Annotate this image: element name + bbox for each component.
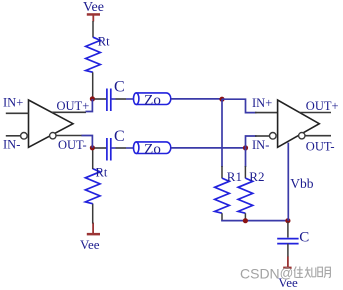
svg-text:C: C — [114, 128, 125, 145]
node D junction dot — [243, 145, 248, 150]
svg-text:R2: R2 — [249, 169, 264, 184]
resistor R1 — [215, 178, 230, 213]
wire node D down to R2 — [245, 148, 247, 167]
wire Zo2 to node D — [171, 147, 246, 149]
svg-text:Zo: Zo — [144, 92, 161, 108]
svg-text:IN-: IN- — [252, 138, 269, 152]
pin IN+ (left amp) — [6, 112, 29, 114]
svg-text:OUT+: OUT+ — [306, 99, 339, 113]
resistor Rt (top) — [86, 37, 101, 72]
wire bottom rail R1/R2 to Vbb node — [222, 219, 288, 222]
wire Vbb node to C3 — [287, 222, 289, 238]
pin R2 top — [244, 166, 246, 178]
pin OUT+ (left amp) — [52, 111, 86, 113]
op-amp U1 (left) — [29, 100, 74, 147]
wire Vee to Rt1 — [92, 21, 94, 37]
svg-text:Rt: Rt — [98, 34, 110, 48]
wire OUT- to node C — [82, 136, 93, 148]
wire C3 to Vee — [287, 244, 289, 257]
wire node C to C2 — [95, 147, 107, 149]
svg-text:OUT+: OUT+ — [57, 99, 90, 113]
node B junction dot — [219, 97, 224, 102]
svg-text:IN-: IN- — [3, 137, 20, 151]
watermark hanzi strokes — [294, 267, 330, 278]
capacitor C1 — [107, 89, 111, 112]
junction dot at Vbb line — [285, 218, 290, 223]
inversion bubble OUT- (right amp) — [299, 133, 305, 139]
svg-text:Rt: Rt — [96, 165, 108, 179]
wire Rt2 to Vee — [92, 204, 94, 224]
transmission line Zo (lower) — [134, 142, 171, 154]
pin OUT+ (right amp) — [300, 112, 331, 114]
capacitor C3 — [277, 239, 298, 244]
inversion bubble IN- (left amp) — [21, 133, 28, 140]
pin R2 bottom — [244, 213, 246, 220]
resistor R2 — [238, 178, 253, 213]
wire node B to IN+ step — [222, 99, 257, 112]
wire node C to Rt2 — [92, 148, 94, 169]
svg-text:C: C — [114, 78, 125, 95]
pin R1 top — [221, 166, 223, 178]
wire C2 to Zo2 — [111, 147, 116, 149]
pin IN+ (right amp) — [255, 112, 278, 114]
inversion bubble IN- (right amp) — [270, 133, 277, 140]
svg-text:Vee: Vee — [80, 237, 100, 252]
svg-text:@: @ — [280, 266, 294, 281]
wire C1 to Zo1 — [111, 98, 116, 100]
pin IN- (left amp) — [6, 135, 21, 137]
svg-text:OUT-: OUT- — [306, 140, 335, 154]
svg-text:CSDN: CSDN — [240, 266, 280, 282]
node A junction dot — [90, 96, 95, 101]
power symbol Vee (bottom-left) stub — [92, 223, 94, 234]
power symbol Vee (top) bar — [87, 13, 100, 16]
power symbol Vee (bottom-right) bar — [283, 267, 291, 269]
pin IN- (right amp) — [255, 135, 269, 137]
wire Zo1 to node B — [171, 98, 222, 100]
inversion bubble OUT- (left amp) — [50, 133, 56, 139]
svg-text:OUT-: OUT- — [58, 138, 87, 152]
svg-text:IN+: IN+ — [252, 96, 272, 110]
resistor Rt (bottom) — [85, 169, 100, 204]
pin R1 bottom — [221, 213, 223, 220]
wire node B down to R1 — [221, 99, 223, 167]
svg-text:Vbb: Vbb — [290, 176, 313, 191]
svg-text:IN+: IN+ — [3, 96, 23, 110]
power symbol Vee (top) stub — [92, 16, 94, 22]
transmission line Zo (upper) — [134, 93, 171, 105]
wire node D up to IN- step — [246, 136, 257, 148]
wire Rt1 to node A — [92, 72, 94, 99]
wire node A to C1 — [95, 98, 107, 100]
svg-text:R1: R1 — [227, 169, 242, 184]
svg-text:Vee: Vee — [83, 0, 104, 15]
power symbol Vee (bottom-right) stub — [287, 257, 289, 268]
op-amp U2 (right) — [278, 100, 320, 147]
power symbol Vee (bottom-left) bar — [87, 233, 100, 236]
wire OUT+ to node A — [86, 99, 93, 112]
wire Vbb: amp VOCM pin down to rail — [287, 143, 289, 221]
node C junction dot — [90, 145, 95, 150]
junction dot under R2 — [243, 218, 248, 223]
svg-text:C: C — [299, 230, 309, 246]
pin OUT- (left amp) — [56, 135, 82, 137]
svg-text:Zo: Zo — [144, 141, 161, 157]
capacitor C2 — [107, 138, 111, 161]
pin OUT- (right amp) — [305, 135, 331, 137]
